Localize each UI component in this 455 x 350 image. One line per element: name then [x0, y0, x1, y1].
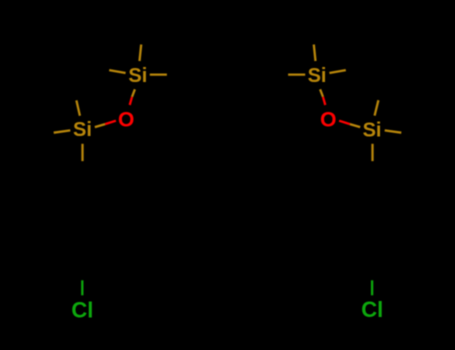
bond Si2 methyl left: [54, 130, 71, 132]
bond Cl1 to ring: [81, 280, 83, 295]
svg-text:Cl: Cl: [71, 298, 93, 323]
svg-text:Si: Si: [73, 119, 92, 141]
svg-text:Si: Si: [128, 65, 147, 87]
bond Si1-O1 silicon half: [132, 89, 135, 97]
bond Si1' methyl left: [288, 73, 305, 75]
svg-text:O: O: [118, 108, 134, 131]
bond O2-Si2' oxygen half: [339, 121, 350, 124]
svg-text:Si: Si: [363, 120, 382, 142]
bond Cl2 to ring: [371, 280, 373, 295]
svg-text:Cl: Cl: [361, 297, 383, 322]
bond Si1'-O2 silicon half: [320, 89, 323, 97]
bond Si2 methyl up: [76, 100, 80, 115]
bond Si1 methyl left: [109, 70, 125, 73]
bond O2-Si2' silicon half: [350, 124, 360, 127]
bond Si1' methyl up: [314, 45, 316, 62]
bond Si1 methyl right: [150, 73, 167, 75]
bond Si1 methyl up: [140, 45, 142, 62]
bond Si2 to chain down: [81, 144, 83, 161]
svg-text:Si: Si: [308, 65, 327, 87]
bond Si2' to chain down: [371, 144, 373, 161]
bond Si1' methyl right: [329, 70, 345, 73]
bond Si1'-O2 oxygen half: [323, 97, 325, 105]
bond Si1-O1 oxygen half: [130, 97, 132, 105]
bond O1-Si2 silicon half: [95, 124, 105, 127]
bond Si2' methyl up: [375, 100, 379, 115]
bond Si2' methyl right: [385, 130, 402, 132]
bond O1-Si2 oxygen half: [105, 121, 116, 124]
svg-text:O: O: [320, 108, 336, 131]
